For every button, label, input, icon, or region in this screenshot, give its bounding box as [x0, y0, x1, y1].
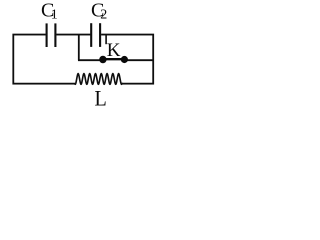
- wire middle horizontal (switch to right wall): [125, 59, 155, 61]
- capacitor C1 right plate: [54, 23, 56, 47]
- gap in bottom wire for inductor: [75, 82, 121, 86]
- switch K bar between contacts: [103, 58, 125, 60]
- switch K left contact dot: [99, 56, 106, 63]
- capacitor C1 left plate: [46, 23, 48, 47]
- svg-text:2: 2: [100, 8, 107, 23]
- gap in top wire for C2: [90, 33, 101, 37]
- gap in top wire for C1: [46, 33, 57, 37]
- capacitor C2 right plate: [99, 23, 101, 47]
- svg-text:1: 1: [51, 8, 58, 23]
- wire middle-branch vertical drop from top wire: [78, 35, 80, 61]
- wire outer loop rectangle: [13, 35, 153, 84]
- wire stub below top wire at switch: [105, 35, 107, 44]
- capacitor C2 left plate: [90, 23, 92, 47]
- inductor L coil: [75, 74, 123, 85]
- switch K right contact dot: [121, 56, 128, 63]
- svg-text:L: L: [95, 85, 107, 110]
- svg-text:K: K: [107, 40, 121, 61]
- wire middle horizontal (drop to switch): [78, 59, 103, 61]
